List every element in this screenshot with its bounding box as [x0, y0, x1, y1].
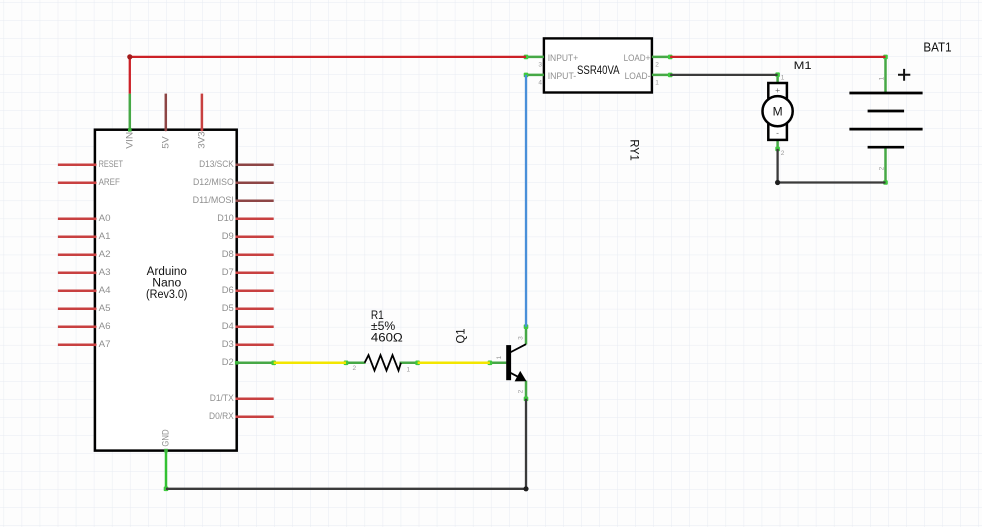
svg-text:D8: D8 — [222, 249, 234, 260]
svg-text:1: 1 — [496, 355, 503, 359]
svg-text:(Rev3.0): (Rev3.0) — [146, 289, 188, 301]
battery BAT1 pin number labels — [879, 76, 886, 170]
wire: VIN to relay INPUT+ (red) — [130, 57, 526, 94]
svg-text:Nano: Nano — [152, 278, 181, 290]
svg-text:D9: D9 — [222, 231, 234, 242]
svg-text:LOAD-: LOAD- — [625, 71, 651, 82]
svg-text:BAT1: BAT1 — [923, 39, 951, 54]
svg-text:R1: R1 — [371, 310, 384, 322]
svg-text:RY1: RY1 — [628, 139, 640, 160]
svg-text:A2: A2 — [99, 249, 111, 260]
transistor Q1 symbol — [506, 344, 526, 381]
motor M1 pin 1 leg — [776, 75, 779, 83]
battery BAT1 plus sign — [898, 69, 910, 81]
svg-text:D3: D3 — [222, 339, 234, 350]
Arduino pin D2 (connected green leg) — [235, 361, 274, 365]
svg-text:M1: M1 — [794, 60, 812, 72]
wire bendpoint at motor bottom corner — [775, 180, 780, 185]
svg-text:3V3: 3V3 — [197, 131, 208, 148]
relay pin 1 leg (LOAD-) — [652, 74, 670, 77]
Arduino right pin row: D13/SCK, D12/MISO, D11/MOSI (dark maroon legs) — [236, 165, 274, 201]
svg-text:1: 1 — [655, 80, 659, 87]
svg-text:2: 2 — [781, 150, 785, 157]
svg-text:GND: GND — [161, 429, 172, 446]
svg-text:D0/RX: D0/RX — [209, 411, 234, 422]
motor M1 symbol — [763, 83, 793, 140]
svg-text:5V: 5V — [161, 136, 172, 149]
transistor Q1 base leg — [490, 362, 507, 365]
svg-text:A5: A5 — [99, 303, 111, 314]
svg-text:INPUT+: INPUT+ — [548, 53, 579, 64]
svg-text:D13/SCK: D13/SCK — [199, 159, 234, 170]
svg-text:INPUT-: INPUT- — [548, 71, 577, 82]
motor M1 pin 2 leg — [776, 140, 779, 149]
battery BAT1 pin 1 leg — [884, 57, 887, 93]
svg-text:3: 3 — [538, 62, 542, 69]
svg-text:2: 2 — [879, 166, 886, 170]
svg-text:D5: D5 — [222, 303, 234, 314]
svg-text:SSR40VA: SSR40VA — [577, 65, 620, 77]
svg-text:D1/TX: D1/TX — [210, 393, 235, 404]
svg-text:A7: A7 — [99, 339, 111, 350]
svg-text:D10: D10 — [217, 213, 234, 224]
wire: relay LOAD- to motor pin 1 (gray) — [670, 74, 777, 76]
wire: D2 to resistor R1 (yellow) — [274, 362, 346, 365]
Arduino Nano module body — [95, 130, 237, 451]
svg-text:1: 1 — [781, 75, 785, 82]
Arduino left pin terminal dots — [94, 163, 97, 346]
svg-text:2: 2 — [655, 62, 659, 69]
wire: relay INPUT- to Q1 collector (blue) — [525, 75, 527, 327]
wire: relay LOAD+ to battery + (red) — [670, 56, 885, 58]
svg-text:VIN: VIN — [125, 132, 136, 149]
svg-text:3: 3 — [518, 336, 525, 340]
transistor Q1 collector leg — [525, 327, 528, 345]
svg-text:1: 1 — [407, 367, 411, 374]
svg-text:+: + — [775, 85, 780, 95]
svg-text:A1: A1 — [99, 231, 111, 242]
Arduino left pin row: RESET, AREF, A0-A7 (unconnected red legs) — [58, 165, 96, 345]
relay pin 4 leg (INPUT-) — [526, 74, 544, 77]
svg-text:A6: A6 — [99, 321, 111, 332]
battery BAT1 pin 2 leg — [884, 147, 887, 182]
resistor R1 legs — [346, 362, 366, 365]
svg-text:Q1: Q1 — [455, 329, 467, 344]
connected-terminal dots (lime) — [164, 55, 888, 492]
resistor R1 value labels — [371, 310, 403, 345]
svg-text:1: 1 — [879, 76, 886, 80]
wire: motor pin 2 to battery - (gray) — [778, 149, 886, 183]
wire: Q1 emitter to GND rail (gray) — [166, 399, 526, 489]
transistor Q1 emitter leg — [525, 381, 528, 399]
relay pin 2 leg (LOAD+) — [652, 56, 670, 59]
svg-text:AREF: AREF — [99, 177, 120, 188]
battery BAT1 symbol plates — [849, 93, 922, 147]
svg-text:D7: D7 — [222, 267, 234, 278]
relay pin 3 leg (INPUT+) — [526, 56, 544, 59]
relay pin number labels — [538, 62, 659, 87]
Arduino pin GND (connected leg, green) — [161, 429, 172, 489]
resistor R1 zigzag element — [365, 355, 401, 370]
svg-text:2: 2 — [518, 389, 525, 393]
wire bendpoint at emitter corner — [523, 486, 528, 491]
svg-text:A4: A4 — [99, 285, 111, 296]
Arduino pin 5V (unconnected leg) — [161, 94, 172, 149]
Arduino right pin row: D10-D3, D1/TX, D0/RX (red legs) — [236, 219, 274, 417]
svg-text:RESET: RESET — [99, 159, 124, 170]
svg-text:D6: D6 — [222, 285, 234, 296]
svg-text:2: 2 — [353, 365, 357, 372]
svg-text:±5%: ±5% — [371, 321, 395, 333]
relay RY1 SSR40VA body — [544, 38, 652, 92]
svg-text:D2: D2 — [222, 357, 234, 368]
svg-text:D11/MOSI: D11/MOSI — [193, 195, 234, 206]
Arduino pin VIN (connected leg) — [125, 94, 136, 149]
svg-text:4: 4 — [538, 80, 542, 87]
Arduino left pin labels — [99, 159, 124, 350]
svg-text:A0: A0 — [99, 213, 111, 224]
svg-text:M: M — [773, 105, 783, 119]
svg-text:A3: A3 — [99, 267, 111, 278]
transistor Q1 pin number labels — [496, 336, 525, 394]
Arduino right pin labels — [193, 159, 235, 422]
svg-text:-: - — [776, 127, 779, 137]
svg-text:D12/MISO: D12/MISO — [193, 177, 234, 188]
wire bendpoint at VIN corner — [127, 54, 132, 59]
svg-text:Arduino: Arduino — [147, 266, 187, 278]
wire: resistor R1 to Q1 base (yellow) — [418, 362, 490, 365]
svg-text:460Ω: 460Ω — [371, 333, 403, 345]
svg-text:D4: D4 — [222, 321, 234, 332]
Arduino pin 3V3 (unconnected leg) — [197, 94, 208, 149]
svg-text:LOAD+: LOAD+ — [624, 53, 651, 64]
